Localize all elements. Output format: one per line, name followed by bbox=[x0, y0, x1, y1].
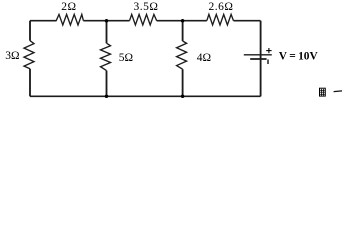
wire left branch lower stub bbox=[29, 69, 31, 97]
wire bottom rail bbox=[30, 95, 261, 97]
junction dot node A top bbox=[105, 19, 109, 23]
wire middle branch 1 lower stub bbox=[106, 71, 108, 97]
resistor R4 3ohm zigzag bbox=[24, 41, 34, 69]
resistor R3 2.6ohm zigzag bbox=[207, 14, 234, 25]
svg-text:2Ω: 2Ω bbox=[61, 1, 76, 13]
junction dot node D bottom bbox=[181, 95, 185, 99]
wire top between 3.5ohm and node B bbox=[157, 20, 183, 22]
resistor R5 5ohm zigzag bbox=[101, 43, 111, 70]
svg-text:5Ω: 5Ω bbox=[119, 52, 133, 64]
battery minus tick bbox=[267, 60, 269, 65]
wire top between node B and 2.6ohm bbox=[183, 20, 207, 22]
caption figure character (tu) bbox=[320, 88, 326, 96]
battery V1 negative plate (short thick) bbox=[250, 58, 266, 60]
caption dash (one) bbox=[334, 90, 342, 93]
svg-text:3.5Ω: 3.5Ω bbox=[134, 1, 159, 13]
svg-text:4Ω: 4Ω bbox=[197, 52, 211, 64]
wire middle branch 2 upper stub bbox=[182, 21, 184, 41]
resistor R2 3.5ohm zigzag bbox=[130, 14, 157, 25]
wire top between node A and 3.5ohm bbox=[107, 20, 130, 22]
wire left branch upper stub bbox=[29, 21, 31, 41]
wire battery branch vertical bbox=[260, 21, 262, 97]
junction dot node C bottom bbox=[105, 95, 109, 99]
wire top-left segment bbox=[30, 20, 57, 22]
battery plus sign bbox=[266, 48, 271, 53]
wire top-right segment to corner bbox=[234, 20, 261, 22]
svg-text:3Ω: 3Ω bbox=[5, 50, 19, 62]
resistor R6 4ohm zigzag bbox=[177, 41, 187, 69]
svg-text:2.6Ω: 2.6Ω bbox=[209, 1, 234, 13]
junction dot node B top bbox=[181, 19, 185, 23]
wire top between 2ohm and node A bbox=[83, 20, 106, 22]
resistor R1 2ohm zigzag bbox=[56, 14, 83, 25]
battery V1 positive plate (long) bbox=[244, 54, 272, 56]
wire middle branch 2 lower stub bbox=[182, 69, 184, 96]
svg-text:V = 10V: V = 10V bbox=[279, 50, 319, 62]
wire middle branch 1 upper stub bbox=[106, 21, 108, 44]
